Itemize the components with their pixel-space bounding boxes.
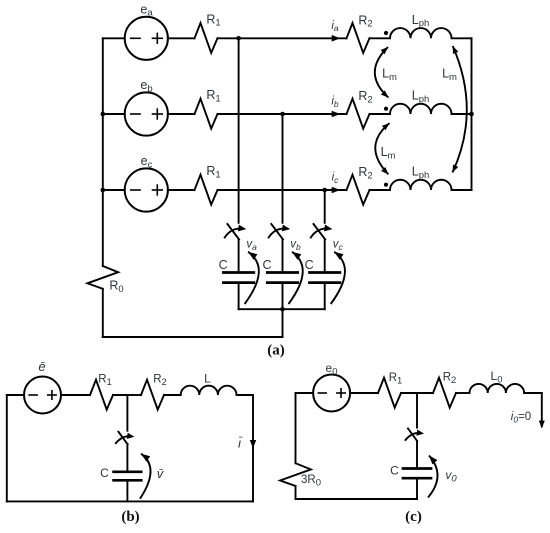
voltage source e_c: [125, 168, 168, 211]
wire capacitor common row: [239, 308, 325, 310]
svg-text:(b): (b): [121, 509, 139, 525]
switch (c): [408, 429, 417, 442]
svg-text:ia: ia: [331, 20, 339, 33]
switch phase c: [314, 224, 326, 239]
current arrow i0: [539, 421, 545, 429]
node dot phase c tap: [322, 188, 327, 193]
svg-text:v̄: v̄: [157, 466, 165, 481]
wire capacitor to bottom (b): [126, 480, 128, 501]
wire phase b left: [103, 113, 125, 115]
svg-text:(a): (a): [267, 343, 285, 359]
wire bottom return (a): [103, 336, 283, 338]
wire capacitor a to row: [238, 283, 240, 310]
mutual arrow Lm b-c: [375, 123, 389, 174]
wire source to R1 (b): [61, 394, 90, 396]
inductor L (b): [181, 386, 237, 395]
capacitor C (b): [114, 470, 142, 473]
resistor 3R0: [280, 463, 311, 486]
resistor R2 phase c: [347, 175, 370, 205]
wire left bus (b): [6, 395, 8, 501]
wire source to R1 phase a: [168, 37, 195, 39]
svg-text:C: C: [262, 258, 271, 272]
svg-text:R2: R2: [153, 374, 167, 388]
resistor R2 phase a: [347, 23, 370, 53]
junction dot right bus phase b: [469, 112, 474, 117]
wire branch c to capacitor: [324, 239, 326, 272]
capacitor C (c): [403, 467, 431, 470]
node dot phase b tap: [280, 112, 285, 117]
voltage arrow v-bar: [140, 454, 151, 499]
svg-text:(c): (c): [405, 509, 422, 525]
svg-text:3R0: 3R0: [301, 474, 321, 488]
voltage arrow v_c: [331, 252, 345, 304]
wire source to R1 phase b: [168, 113, 195, 115]
capacitor C phase a: [223, 271, 253, 274]
wire top left (b): [7, 394, 24, 396]
current arrow i_c: [332, 187, 341, 194]
polarity dot phase a: [384, 31, 388, 35]
svg-text:Lm: Lm: [442, 67, 457, 83]
polarity dot phase c: [384, 183, 388, 187]
svg-text:C: C: [390, 464, 399, 478]
wire branch upper (c): [416, 393, 418, 428]
svg-text:va: va: [246, 239, 257, 252]
wire source to R1 (c): [350, 392, 378, 394]
svg-text:i0=0: i0=0: [511, 411, 531, 425]
wire output stub (c): [541, 393, 543, 426]
svg-text:R1: R1: [98, 374, 112, 388]
wire left bus lower (c): [295, 486, 297, 499]
wire capacitor to bottom (c): [416, 478, 418, 499]
svg-text:ic: ic: [332, 172, 340, 185]
wire R2 to coil phase b: [370, 113, 391, 115]
inductor L0: [470, 384, 525, 393]
svg-text:Lph: Lph: [412, 89, 430, 105]
wire coil to right bus phase a: [452, 37, 472, 39]
wire node to R2 (b): [127, 394, 141, 396]
svg-text:ib: ib: [331, 96, 339, 109]
wire branch b to capacitor: [282, 239, 284, 272]
node dot phase a tap: [236, 36, 241, 41]
voltage arrow v_b: [289, 252, 303, 304]
svg-text:ı̄: ı̄: [238, 436, 243, 451]
svg-text:L: L: [204, 372, 211, 386]
voltage arrow v0: [428, 456, 438, 498]
svg-text:e0: e0: [326, 361, 338, 377]
voltage source e_a: [125, 17, 168, 60]
capacitor C phase c: [310, 271, 340, 274]
switch phase a: [227, 224, 239, 239]
wire source to R1 phase c: [168, 189, 195, 191]
wire phase c left: [103, 189, 125, 191]
wire R1 to node (b): [113, 394, 127, 396]
wire branch to capacitor (c): [416, 441, 418, 468]
svg-text:R2: R2: [358, 165, 372, 181]
resistor R1 phase a: [195, 23, 218, 53]
capacitor C phase b: [267, 271, 297, 274]
svg-text:vb: vb: [290, 239, 301, 252]
resistor R1 phase c: [195, 175, 218, 205]
wire R2 to coil phase c: [370, 189, 391, 191]
svg-text:R2: R2: [443, 372, 457, 386]
wire R1 to node phase a: [218, 37, 239, 39]
switch phase b: [271, 224, 283, 239]
svg-text:eb: eb: [140, 78, 152, 94]
wire L0 to stub (c): [524, 392, 542, 394]
mutual arrow Lm a-b: [375, 47, 389, 98]
svg-text:ea: ea: [140, 2, 153, 18]
svg-text:R1: R1: [206, 164, 220, 180]
wire left bus lower (a): [102, 289, 104, 337]
wire bottom (b): [7, 500, 253, 502]
wire bottom (c): [296, 498, 418, 500]
current arrow i_b: [332, 111, 341, 118]
resistor R1 (c): [378, 378, 401, 408]
svg-text:R2: R2: [358, 89, 372, 105]
resistor R1 (b): [90, 380, 113, 410]
wire R1 to node phase c: [218, 189, 325, 191]
svg-text:Lph: Lph: [412, 165, 430, 181]
svg-text:vc: vc: [333, 239, 344, 252]
wire node to R2 (c): [417, 392, 433, 394]
wire branch a upper: [238, 38, 240, 223]
svg-text:R0: R0: [109, 279, 123, 295]
wire capacitor c to row: [324, 283, 326, 310]
current arrow i-bar: [250, 440, 256, 449]
wire phase b to R2: [283, 113, 347, 115]
resistor R0: [87, 266, 118, 289]
node dot left bus phase c: [101, 188, 106, 193]
wire branch a to capacitor: [238, 239, 240, 272]
voltage arrow v_a: [245, 252, 259, 304]
wire phase a left: [103, 37, 125, 39]
svg-text:v0: v0: [445, 468, 457, 484]
wire coil to right bus phase c: [452, 189, 472, 191]
wire left bus (a): [102, 38, 104, 266]
wire branch b upper: [282, 114, 284, 223]
svg-text:Lm: Lm: [381, 145, 396, 161]
resistor R2 (c): [433, 378, 456, 408]
wire capacitor b to row: [282, 283, 284, 310]
svg-text:C: C: [219, 258, 228, 272]
wire right bus (b): [252, 395, 254, 501]
wire branch c upper: [324, 190, 326, 223]
svg-text:Lph: Lph: [412, 13, 430, 29]
mutual arrow Lm a-c: [453, 46, 467, 173]
svg-text:ē: ē: [38, 359, 45, 374]
resistor R2 phase b: [347, 99, 370, 129]
current arrow i_a: [332, 35, 341, 42]
voltage source e_b: [125, 92, 168, 135]
svg-text:R1: R1: [389, 372, 403, 386]
polarity dot phase b: [384, 107, 388, 111]
junction dot common row: [280, 307, 285, 312]
resistor R2 (b): [141, 380, 164, 410]
node dot left bus phase b: [101, 112, 106, 117]
resistor R1 phase b: [195, 99, 218, 129]
inductor L_ph phase c: [390, 180, 452, 190]
wire top left (c): [296, 392, 314, 394]
inductor L_ph phase a: [390, 28, 452, 38]
svg-text:R2: R2: [358, 13, 372, 29]
switch (b): [118, 432, 127, 445]
inductor L_ph phase b: [390, 104, 452, 114]
svg-text:L0: L0: [491, 369, 503, 385]
wire branch upper (b): [126, 395, 128, 431]
wire phase c to R2: [325, 189, 347, 191]
svg-text:C: C: [100, 466, 109, 480]
wire phase a to R2: [239, 37, 347, 39]
svg-text:R1: R1: [206, 12, 220, 28]
voltage source e-bar: [24, 377, 61, 414]
wire R2 to coil phase a: [370, 37, 391, 39]
wire branch to capacitor (b): [126, 444, 128, 472]
wire R2 to L0 (c): [456, 392, 470, 394]
svg-text:R1: R1: [206, 88, 220, 104]
voltage source e0: [313, 375, 350, 412]
wire coil to right bus phase b: [452, 113, 472, 115]
wire R1 to node phase b: [218, 113, 283, 115]
wire left bus upper (c): [295, 393, 297, 463]
wire R1 to node (c): [401, 392, 417, 394]
svg-text:Lm: Lm: [382, 67, 397, 83]
svg-text:ec: ec: [141, 154, 153, 170]
wire L to right bus (b): [237, 394, 254, 396]
wire right bus (a): [471, 38, 473, 190]
wire stub to capacitor row: [282, 309, 284, 337]
wire R2 to L (b): [164, 394, 181, 396]
svg-text:C: C: [305, 258, 314, 272]
